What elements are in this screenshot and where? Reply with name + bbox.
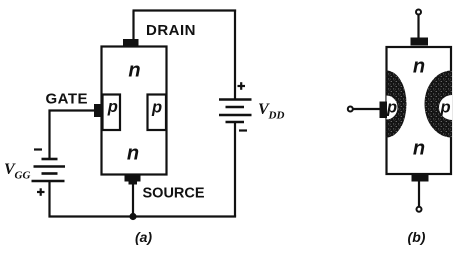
terminal gate (b) (348, 107, 353, 112)
wire: bottom rail horizontal (49, 215, 237, 217)
drain contact pad (a) (123, 39, 139, 47)
transistor body (b): n-channel block (387, 47, 452, 174)
p island right (b) (439, 95, 452, 120)
node: source junction dot (129, 213, 136, 220)
svg-text:DD: DD (268, 110, 285, 122)
battery VGG plate 4 (long, +) (32, 180, 65, 183)
wire: VDD top vertical (234, 10, 236, 100)
wire: VDD bottom vertical (234, 122, 236, 217)
svg-text:(a): (a) (135, 229, 152, 245)
p island left (b) (387, 96, 398, 120)
wire: bottom terminal lead (b) (418, 181, 420, 206)
svg-text:DRAIN: DRAIN (146, 22, 196, 39)
p region left (a) (103, 95, 121, 131)
svg-text:n: n (413, 138, 425, 160)
svg-text:n: n (128, 60, 140, 82)
wire: VGG top vertical (48, 110, 50, 160)
VGG plus sign (37, 188, 45, 196)
depletion region left (b) (387, 71, 407, 138)
battery VDD plate 4 (short, -) (226, 121, 245, 124)
terminal bottom (b) (417, 207, 422, 212)
svg-text:GATE: GATE (46, 90, 89, 107)
drain contact pad (b) (411, 38, 429, 46)
wire: top terminal lead (b) (417, 15, 419, 39)
svg-text:n: n (127, 142, 139, 164)
p region right (a) (148, 95, 167, 131)
svg-text:p: p (151, 98, 162, 116)
depletion region right (b) (425, 71, 452, 138)
svg-text:p: p (386, 99, 397, 117)
battery VGG plate 1 (short, -) (42, 158, 58, 161)
battery VDD plate 1 (long, +) (219, 98, 252, 101)
battery VGG plate 2 (long) (34, 165, 66, 168)
gate contact pad (b) (380, 102, 388, 119)
svg-text:GG: GG (15, 170, 31, 182)
svg-text:p: p (439, 99, 450, 117)
VDD minus sign (239, 129, 247, 131)
VGG minus sign (34, 148, 42, 150)
VDD plus sign (238, 82, 246, 90)
source contact pad (a) (125, 174, 141, 182)
wire: source lead vertical (132, 181, 134, 217)
battery VDD plate 3 (long) (219, 114, 252, 117)
svg-text:p: p (107, 98, 118, 116)
transistor body (a): n-channel block (102, 47, 167, 175)
wire: gate terminal lead (b) (354, 108, 381, 110)
terminal top (b) (416, 10, 421, 15)
battery VDD plate 2 (short) (226, 106, 245, 109)
source contact pad (b) (412, 174, 429, 182)
wire: top rail horizontal (133, 9, 237, 11)
svg-text:n: n (413, 56, 425, 78)
svg-text:(b): (b) (408, 229, 426, 245)
wire: gate lead horizontal (49, 109, 96, 111)
gate contact pad (a) (94, 104, 102, 117)
wire: drain lead vertical (132, 11, 134, 41)
svg-text:SOURCE: SOURCE (143, 186, 205, 202)
battery VGG plate 3 (short) (42, 172, 58, 175)
wire: VGG bottom vertical (48, 181, 50, 218)
